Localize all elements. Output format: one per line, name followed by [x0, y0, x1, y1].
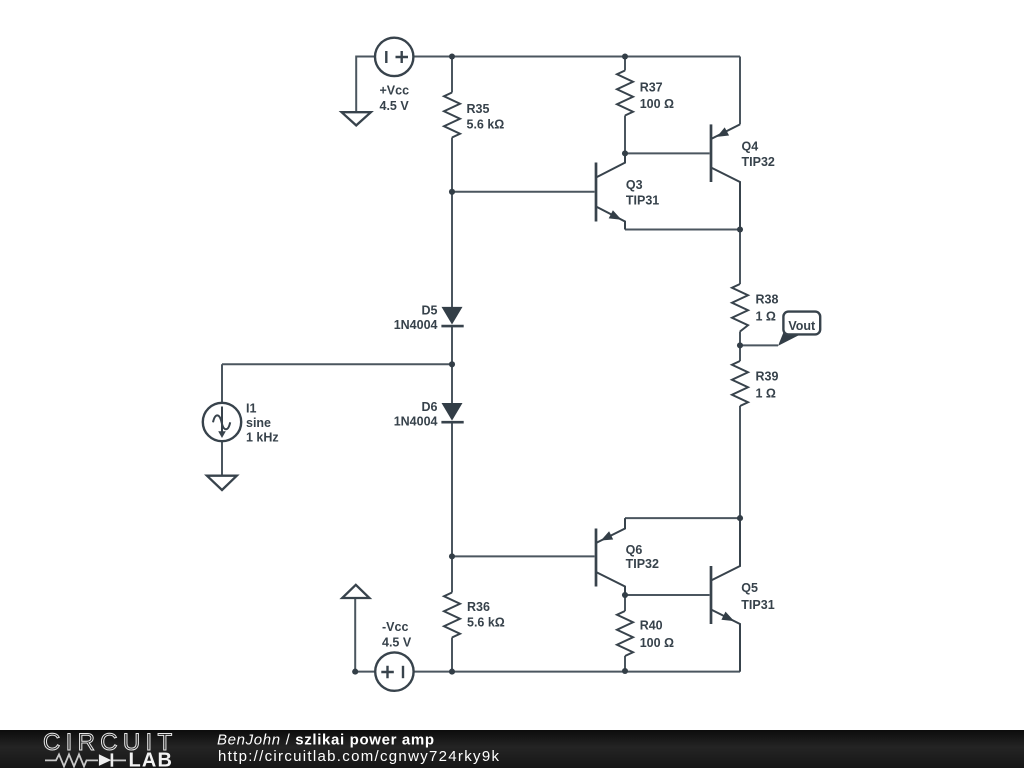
- diode D5: [441, 307, 463, 326]
- wire Q6 emitter rail: [625, 517, 740, 519]
- svg-text:Vout: Vout: [788, 319, 816, 333]
- svg-text:BenJohn / szlikai power amp: BenJohn / szlikai power amp: [217, 732, 435, 749]
- svg-text:4.5 V: 4.5 V: [382, 635, 412, 649]
- svg-text:-Vcc: -Vcc: [382, 620, 408, 634]
- svg-text:D5: D5: [422, 303, 438, 317]
- ground (below I1): [207, 476, 237, 490]
- resistor R35: [444, 93, 460, 138]
- wire right column R38 R39: [739, 230, 741, 519]
- junction R35 / Q3 base: [449, 189, 455, 195]
- wire top rail: [413, 56, 740, 58]
- flag Vout: [778, 312, 820, 346]
- voltage source +Vcc: [375, 38, 413, 76]
- transistor Q5: [711, 518, 740, 672]
- resistor R39: [732, 361, 748, 406]
- svg-text:I1: I1: [246, 401, 256, 415]
- ground (top left): [342, 112, 371, 125]
- wire Vout stub: [740, 344, 778, 346]
- footer bar: [0, 730, 1024, 768]
- transistor Q6: [596, 518, 625, 595]
- svg-text:sine: sine: [246, 416, 271, 430]
- logo resistor-diode glyph: [45, 753, 126, 766]
- resistor R40: [617, 611, 633, 656]
- svg-text:http://circuitlab.com/cgnwy724: http://circuitlab.com/cgnwy724rky9k: [218, 748, 500, 765]
- svg-text:R35: R35: [467, 102, 490, 116]
- diode D6: [441, 403, 463, 422]
- svg-text:Q5: Q5: [741, 581, 758, 595]
- junction Q6 emitter / Q5 collector: [737, 515, 743, 521]
- svg-text:Q4: Q4: [742, 140, 759, 154]
- junction +Vcc rail / R37: [622, 53, 628, 59]
- junction -Vcc / ground branch: [352, 669, 358, 675]
- voltage source -Vcc: [375, 652, 413, 690]
- node Vout junction: [737, 342, 743, 348]
- resistor R37: [617, 71, 633, 116]
- junction D5 / D6 / I1: [449, 361, 455, 367]
- svg-text:TIP31: TIP31: [626, 194, 659, 208]
- resistor R36: [444, 593, 460, 638]
- wire R37 column x=625: [624, 57, 626, 154]
- svg-text:Q6: Q6: [626, 543, 643, 557]
- wire I1 to ground: [221, 441, 223, 475]
- transistor Q3: [596, 153, 625, 229]
- wire Q6 base: [452, 555, 595, 557]
- wire Q5 collector feed: [739, 518, 741, 566]
- svg-text:1 Ω: 1 Ω: [756, 309, 776, 323]
- svg-text:R37: R37: [640, 81, 663, 95]
- transistor Q4: [711, 124, 740, 229]
- svg-text:Q3: Q3: [626, 178, 643, 192]
- junction -Vcc rail / R36: [449, 669, 455, 675]
- svg-text:R40: R40: [640, 619, 663, 633]
- svg-text:R38: R38: [756, 292, 779, 306]
- junction Q3 emitter / Q4 collector: [737, 226, 743, 232]
- wire bottom rail: [413, 624, 740, 672]
- junction D6 / R36 / Q6 base: [449, 553, 455, 559]
- svg-text:1 kHz: 1 kHz: [246, 430, 279, 444]
- junction Q6 collector / Q5 base / R40: [622, 592, 628, 598]
- wire Q5 base: [625, 594, 710, 596]
- svg-text:R39: R39: [756, 369, 779, 383]
- resistor R38: [732, 284, 748, 332]
- svg-text:5.6 kΩ: 5.6 kΩ: [467, 117, 505, 131]
- wire -Vcc left stub: [355, 598, 375, 672]
- svg-text:100 Ω: 100 Ω: [640, 636, 674, 650]
- svg-text:1N4004: 1N4004: [394, 318, 438, 332]
- svg-text:TIP32: TIP32: [626, 557, 659, 571]
- wire Q4 base: [625, 152, 710, 154]
- wire Q3 emitter to Q4 collector node: [625, 229, 740, 231]
- wire center column x=452: [451, 57, 453, 672]
- junction +Vcc rail / R35: [449, 53, 455, 59]
- wire Q4 emitter feed: [739, 57, 741, 125]
- junction R37 / Q4 base / Q3 collector: [622, 150, 628, 156]
- svg-text:R36: R36: [467, 600, 490, 614]
- current source I1: [203, 403, 241, 441]
- svg-text:TIP31: TIP31: [741, 598, 774, 612]
- svg-text:4.5 V: 4.5 V: [380, 99, 410, 113]
- junction -Vcc rail / R40: [622, 668, 628, 674]
- wire I1 to diodes node: [222, 364, 452, 403]
- wire +Vcc left stub to ground: [356, 57, 375, 113]
- svg-text:TIP32: TIP32: [742, 155, 775, 169]
- svg-text:100 Ω: 100 Ω: [640, 97, 674, 111]
- svg-text:LAB: LAB: [129, 750, 174, 768]
- wire Q3 base: [452, 191, 595, 193]
- wire R40 column: [624, 595, 626, 671]
- ground (above -Vcc, pointing up): [342, 585, 369, 598]
- svg-text:1 Ω: 1 Ω: [756, 386, 776, 400]
- svg-text:+Vcc: +Vcc: [380, 84, 410, 98]
- svg-text:1N4004: 1N4004: [394, 414, 438, 428]
- svg-text:D6: D6: [422, 400, 438, 414]
- svg-text:5.6 kΩ: 5.6 kΩ: [467, 615, 505, 629]
